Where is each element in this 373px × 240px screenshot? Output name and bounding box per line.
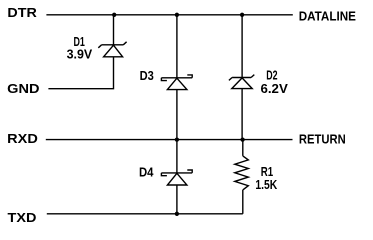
svg-text:R1: R1 (261, 165, 273, 179)
svg-text:RXD: RXD (7, 132, 38, 146)
junction dot DTR/D3 (175, 13, 179, 17)
wire D2 anode down to RXD bus (241, 89, 243, 140)
svg-text:D3: D3 (140, 69, 154, 83)
zener diode D1 symbol (98, 42, 126, 57)
svg-text:1.5K: 1.5K (255, 178, 277, 192)
svg-text:DATALINE: DATALINE (299, 9, 356, 23)
svg-text:D2: D2 (266, 68, 277, 82)
wire D3 cathode to DTR bus (176, 15, 178, 78)
zener diode D4 symbol (161, 170, 192, 185)
wire TXD bus (47, 213, 243, 215)
svg-text:TXD: TXD (8, 211, 37, 225)
svg-text:DTR: DTR (7, 6, 36, 20)
junction dot TXD/D4 (175, 212, 179, 216)
wire DTR bus (DTR to DATALINE) (46, 14, 292, 16)
wire R1 top lead from RXD bus (242, 140, 244, 156)
svg-text:RETURN: RETURN (299, 132, 346, 146)
zener diode D2 symbol (229, 75, 254, 89)
wire GND lead with elbow up to D1 anode (48, 57, 113, 89)
wire D4 anode down to TXD bus (176, 185, 178, 214)
wire D3 anode down to RXD bus (176, 90, 178, 140)
svg-text:D4: D4 (139, 165, 154, 179)
svg-text:GND: GND (7, 82, 39, 96)
junction dot DTR/D1 (112, 13, 116, 17)
svg-text:6.2V: 6.2V (261, 82, 289, 96)
wire RXD bus (RXD to RETURN) (46, 139, 293, 141)
wire R1 bottom lead with elbow to TXD bus (242, 190, 244, 214)
junction dot RXD/D3/D4 (175, 137, 179, 141)
junction dot RXD/R1 (240, 137, 244, 141)
wire D4 cathode to RXD bus (176, 140, 178, 173)
svg-text:3.9V: 3.9V (67, 48, 93, 62)
resistor R1 zigzag body (235, 156, 249, 190)
wire D1 cathode to DTR bus (113, 15, 115, 45)
wire D2 cathode to DTR bus (241, 15, 243, 78)
zener diode D3 symbol (161, 75, 192, 90)
junction dot DTR/D2 (240, 13, 244, 17)
